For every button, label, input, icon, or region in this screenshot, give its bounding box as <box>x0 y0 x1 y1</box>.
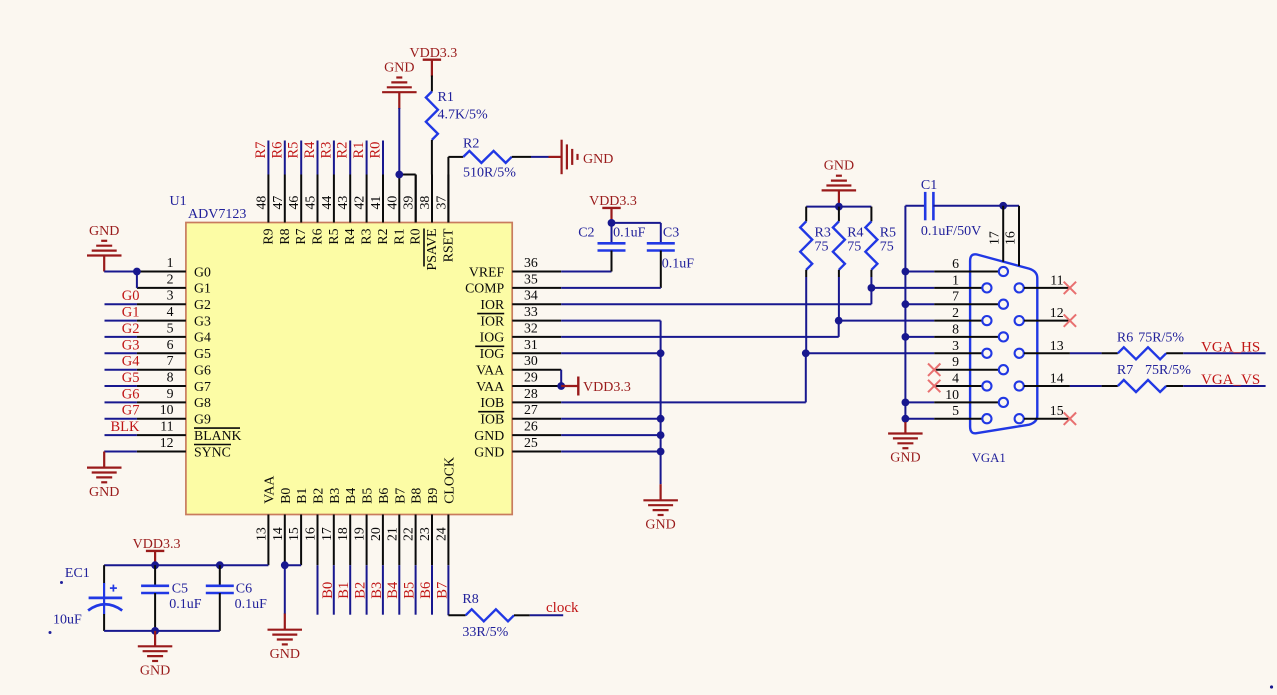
pin 41 R2 <box>382 175 384 223</box>
svg-text:G2: G2 <box>122 321 140 337</box>
wire VDD rail <box>104 564 268 566</box>
svg-text:G6: G6 <box>122 386 140 402</box>
pin 3 G2 <box>137 303 186 305</box>
svg-text:SYNC: SYNC <box>194 444 231 459</box>
wire VDD3.3 to R1 <box>431 60 433 77</box>
svg-text:48: 48 <box>253 196 268 210</box>
wire net G2 <box>105 336 137 338</box>
wire IOR to VGA <box>561 303 871 305</box>
wire VGA pin to R7 <box>1070 385 1102 387</box>
junction GND pin26 <box>657 431 665 439</box>
svg-text:G5: G5 <box>122 370 140 386</box>
svg-text:R8: R8 <box>277 228 292 244</box>
pin 16 B2 <box>317 515 319 566</box>
power VDD3.3 at C2 <box>602 207 620 209</box>
wire C2 to C3 top <box>612 222 661 224</box>
resistor R5 <box>870 207 872 222</box>
no-connect X pin11 <box>1064 282 1076 294</box>
wire net G7 <box>105 418 137 420</box>
capacitor C5 <box>154 565 156 586</box>
svg-text:GND: GND <box>645 518 675 533</box>
resistor R3 <box>805 207 807 222</box>
svg-text:VGA1: VGA1 <box>972 451 1006 465</box>
svg-text:G0: G0 <box>194 264 211 279</box>
svg-text:12: 12 <box>1050 305 1064 320</box>
svg-text:EC1: EC1 <box>65 566 90 581</box>
resistor R6 <box>1118 347 1166 359</box>
svg-text:R0: R0 <box>368 142 384 159</box>
pin 42 R3 <box>366 175 368 223</box>
wire R6 to VGA_HS <box>1166 352 1183 354</box>
wire SYNC to ground <box>104 451 137 453</box>
svg-text:4: 4 <box>952 371 959 386</box>
pin 45 R6 <box>317 175 319 223</box>
svg-text:IOR: IOR <box>480 297 505 312</box>
svg-text:28: 28 <box>524 386 538 401</box>
wire net B3 <box>366 565 368 615</box>
wire GND pin25 to bus <box>561 451 660 453</box>
wire VGA pin to R6 <box>1070 352 1102 354</box>
svg-text:GND: GND <box>384 61 414 76</box>
svg-text:C5: C5 <box>172 581 188 596</box>
svg-text:GND: GND <box>270 647 300 662</box>
svg-text:22: 22 <box>401 527 416 541</box>
svg-text:G6: G6 <box>194 363 211 378</box>
pin 29 VAA <box>512 385 561 387</box>
wire bus wires to VGA pins <box>905 271 934 273</box>
wire VGA ground bus <box>904 206 906 423</box>
junction VGA ground bus <box>902 399 910 407</box>
svg-text:2: 2 <box>952 305 959 320</box>
resistor R2 <box>463 151 511 163</box>
svg-text:VDD3.3: VDD3.3 <box>133 537 181 552</box>
ground GND above R3-R5 <box>822 176 857 191</box>
svg-text:75R/5%: 75R/5% <box>1138 330 1184 345</box>
junction pin14 <box>281 561 289 569</box>
wire termination rail <box>806 206 871 208</box>
pin 39 R0 <box>415 175 417 223</box>
pin 26 GND <box>512 434 561 436</box>
wire net B6 <box>415 565 417 615</box>
svg-text:G5: G5 <box>194 346 211 361</box>
pin 28 IOB <box>512 401 561 403</box>
ground GND below C5 <box>138 646 173 661</box>
svg-text:IOB: IOB <box>480 395 504 410</box>
wire net B1 <box>333 565 335 615</box>
wire R4 lead <box>838 270 840 277</box>
svg-text:VGA_VS: VGA_VS <box>1201 372 1260 388</box>
wire C1 to pins 17 16 <box>933 205 1019 207</box>
svg-text:9: 9 <box>167 386 174 401</box>
connector VGA1 body <box>970 254 1037 433</box>
power VDD3.3 at C5 <box>146 550 164 552</box>
svg-text:R7: R7 <box>253 142 269 159</box>
junction VGA ground bus <box>902 415 910 423</box>
svg-text:45: 45 <box>303 196 318 210</box>
svg-text:34: 34 <box>524 288 538 303</box>
wire net B4 <box>382 565 384 615</box>
svg-text:4.7K/5%: 4.7K/5% <box>438 108 489 123</box>
svg-text:GND: GND <box>824 159 854 174</box>
resistor R7 <box>1118 380 1166 392</box>
wire pin37 to R2 <box>448 156 463 158</box>
wire VREF to C2 <box>561 271 611 273</box>
junction VDD rail C6 <box>216 561 224 569</box>
svg-text:GND: GND <box>140 664 170 679</box>
svg-text:B3: B3 <box>327 488 342 504</box>
svg-text:46: 46 <box>286 196 301 210</box>
wire R8 to clock <box>514 614 530 616</box>
svg-text:14: 14 <box>270 527 285 541</box>
svg-text:21: 21 <box>384 527 399 541</box>
svg-text:C1: C1 <box>921 178 937 193</box>
svg-text:15: 15 <box>286 527 301 541</box>
junction VGA ground bus <box>902 300 910 308</box>
svg-text:3: 3 <box>952 338 959 353</box>
pin 22 B8 <box>415 515 417 566</box>
svg-text:R4: R4 <box>342 228 357 244</box>
no-connect X pin15 <box>1064 413 1076 425</box>
svg-text:G9: G9 <box>194 412 211 427</box>
svg-text:13: 13 <box>1050 338 1064 353</box>
pin 8 VGA <box>934 336 998 338</box>
svg-text:IOR: IOR <box>480 313 505 328</box>
svg-text:IOG: IOG <box>480 346 505 361</box>
svg-text:GND: GND <box>474 428 504 443</box>
svg-text:CLOCK: CLOCK <box>441 457 456 504</box>
svg-text:17: 17 <box>987 231 1002 245</box>
svg-text:24: 24 <box>433 527 448 541</box>
wire net G5 <box>105 385 137 387</box>
wire GND rail <box>104 630 220 632</box>
svg-text:37: 37 <box>433 196 448 210</box>
svg-text:VREF: VREF <box>469 264 505 279</box>
ground GND at pins 14-15 <box>268 630 303 645</box>
pin 2 G1 <box>137 287 186 289</box>
resistor R4 <box>838 207 840 222</box>
junction R5 IOR pin1 <box>868 284 876 292</box>
pin 44 R5 <box>333 175 335 223</box>
svg-text:R2: R2 <box>375 228 390 244</box>
wire net R0 <box>382 141 384 175</box>
svg-text:41: 41 <box>368 196 383 210</box>
pin 33 IOR <box>512 320 561 322</box>
junction pin1 GND <box>133 268 141 276</box>
pin 7 G6 <box>137 369 186 371</box>
svg-text:1: 1 <box>167 255 174 270</box>
svg-text:B6: B6 <box>376 488 391 504</box>
junction R4 IOG pin2 <box>835 317 843 325</box>
svg-text:0.1uF: 0.1uF <box>662 256 695 271</box>
svg-text:G2: G2 <box>194 297 211 312</box>
IC U1 ADV7123 body <box>186 223 512 515</box>
svg-text:19: 19 <box>352 527 367 541</box>
svg-text:G4: G4 <box>122 354 140 370</box>
pin 14 VGA <box>1015 381 1024 390</box>
svg-text:16: 16 <box>303 527 318 541</box>
wire IOG to VGA <box>561 336 839 338</box>
pin 15 B1 <box>300 515 302 566</box>
pin 24 CLOCK <box>447 515 449 566</box>
junction VGA ground bus <box>902 268 910 276</box>
junction VGA ground bus <box>902 333 910 341</box>
no-connect X pin12 <box>1064 314 1076 326</box>
svg-text:26: 26 <box>524 419 538 434</box>
pin 36 VREF <box>512 271 561 273</box>
pin 1 VGA <box>934 287 982 289</box>
pin 27 IOB <box>512 418 561 420</box>
pin 43 R4 <box>349 175 351 223</box>
svg-text:PSAVE: PSAVE <box>424 229 439 271</box>
junction GND rail <box>151 627 159 635</box>
svg-text:40: 40 <box>384 196 399 210</box>
pin 9 G8 <box>137 401 186 403</box>
svg-text:R7: R7 <box>1117 363 1133 378</box>
pin 3 VGA <box>934 352 982 354</box>
no-connect X pin4 <box>928 380 940 392</box>
pin 25 GND <box>512 451 561 453</box>
svg-text:38: 38 <box>417 196 432 210</box>
svg-text:R1: R1 <box>351 142 367 159</box>
svg-text:VGA_HS: VGA_HS <box>1201 340 1260 356</box>
svg-text:75R/5%: 75R/5% <box>1145 363 1191 378</box>
svg-text:R6: R6 <box>269 142 285 159</box>
svg-text:B7: B7 <box>392 488 407 504</box>
svg-text:31: 31 <box>524 337 538 352</box>
svg-text:R8: R8 <box>462 592 478 607</box>
pin 16 <box>1018 206 1020 266</box>
capacitor C3 <box>660 223 662 243</box>
wire net G6 <box>105 401 137 403</box>
svg-text:G8: G8 <box>194 395 211 410</box>
svg-text:13: 13 <box>253 527 268 541</box>
wire IOR-bar to GND bus <box>561 320 660 322</box>
wire net B2 <box>349 565 351 615</box>
svg-text:75: 75 <box>847 240 861 255</box>
wire net R6 <box>284 141 286 175</box>
pin 37 RSET <box>447 175 449 223</box>
pin 17 <box>1002 206 1004 262</box>
svg-text:3: 3 <box>167 288 174 303</box>
svg-text:0.1uF/50V: 0.1uF/50V <box>921 224 981 239</box>
svg-text:BLANK: BLANK <box>194 428 242 443</box>
svg-text:2: 2 <box>167 271 174 286</box>
svg-text:IOG: IOG <box>480 330 505 345</box>
wire net R1 <box>366 141 368 175</box>
pin 34 IOR <box>512 303 561 305</box>
ground GND below bus <box>643 500 678 515</box>
svg-text:R0: R0 <box>408 228 423 244</box>
svg-text:R6: R6 <box>310 228 325 244</box>
svg-text:VAA: VAA <box>476 379 504 394</box>
pin 20 B6 <box>382 515 384 566</box>
pin 30 VAA <box>512 369 561 371</box>
pin 4 G3 <box>137 320 186 322</box>
wire GND to pin1 <box>103 256 105 272</box>
svg-text:RSET: RSET <box>440 228 455 262</box>
pin 13 VGA <box>1015 349 1024 358</box>
pin 32 IOG <box>512 336 561 338</box>
resistor R1 <box>426 92 438 140</box>
wire pin40 to pin39 <box>399 174 415 176</box>
pin 10 VGA <box>934 401 998 403</box>
svg-text:C2: C2 <box>578 225 594 240</box>
power VDD3.3 at VAA <box>561 385 578 387</box>
wire R2 to GND <box>512 156 531 158</box>
svg-text:43: 43 <box>335 196 350 210</box>
svg-text:G7: G7 <box>122 403 140 419</box>
junction pin40 GND <box>395 171 403 179</box>
ground GND at VGA <box>904 422 906 434</box>
svg-text:39: 39 <box>401 196 416 210</box>
wire VDD3.3 to C2 <box>610 208 612 223</box>
junction R3 IOB pin3 <box>802 349 810 357</box>
svg-text:R2: R2 <box>335 142 351 159</box>
svg-text:B5: B5 <box>360 488 375 504</box>
svg-text:G4: G4 <box>194 330 211 345</box>
pin 6 G5 <box>137 352 186 354</box>
svg-text:75: 75 <box>815 240 829 255</box>
svg-text:R9: R9 <box>260 228 275 244</box>
pin 14 B0 <box>284 515 286 566</box>
svg-text:R2: R2 <box>463 136 479 151</box>
wire GND to pin40 <box>398 92 400 109</box>
svg-text:16: 16 <box>1003 231 1018 245</box>
pin 21 B7 <box>398 515 400 566</box>
junction VDD C2 <box>608 219 616 227</box>
junction C1 pin17 <box>999 202 1007 210</box>
wire net G3 <box>105 352 137 354</box>
wire net B0 <box>317 565 319 615</box>
pin 48 R9 <box>267 175 269 223</box>
pin 8 G7 <box>137 385 186 387</box>
svg-text:1: 1 <box>952 272 959 287</box>
junction VDD rail C5 <box>151 561 159 569</box>
svg-text:U1: U1 <box>170 194 187 209</box>
wire net R5 <box>300 141 302 175</box>
wire net B5 <box>398 565 400 615</box>
svg-text:COMP: COMP <box>465 281 504 296</box>
svg-text:R4: R4 <box>847 226 863 241</box>
svg-text:GND: GND <box>89 224 119 239</box>
svg-text:10uF: 10uF <box>53 613 82 628</box>
svg-text:G1: G1 <box>122 305 140 321</box>
ground GND right of R2 <box>549 156 562 158</box>
overline PSAVE <box>423 229 425 267</box>
wire COMP to C3 <box>561 287 661 289</box>
wire R7 to VGA_VS <box>1166 385 1183 387</box>
pin 7 VGA <box>934 303 998 305</box>
svg-text:GND: GND <box>89 485 119 500</box>
svg-text:GND: GND <box>583 152 613 167</box>
svg-text:R1: R1 <box>391 228 406 244</box>
svg-text:42: 42 <box>352 196 367 210</box>
wire pin1 to pin2 <box>136 272 138 288</box>
svg-text:20: 20 <box>368 527 383 541</box>
svg-text:B8: B8 <box>409 488 424 504</box>
svg-text:R3: R3 <box>359 228 374 244</box>
svg-text:GND: GND <box>890 451 920 466</box>
wire net B7 <box>431 565 433 615</box>
pin 10 G9 <box>137 418 186 420</box>
ground GND at SYNC <box>87 468 122 483</box>
svg-text:47: 47 <box>270 196 285 210</box>
svg-text:33R/5%: 33R/5% <box>462 625 508 640</box>
capacitor EC1 <box>89 597 123 600</box>
pin 31 IOG <box>512 352 561 354</box>
svg-text:B2: B2 <box>311 488 326 504</box>
svg-text:VDD3.3: VDD3.3 <box>583 380 631 395</box>
pin 5 G4 <box>137 336 186 338</box>
svg-text:7: 7 <box>952 289 959 304</box>
svg-text:C3: C3 <box>663 225 679 240</box>
svg-text:17: 17 <box>319 527 334 541</box>
svg-text:VAA: VAA <box>261 476 276 504</box>
wire bus to ground <box>659 484 661 500</box>
svg-text:C6: C6 <box>236 581 252 596</box>
wire net R4 <box>317 141 319 175</box>
svg-text:ADV7123: ADV7123 <box>188 207 246 222</box>
svg-text:VDD3.3: VDD3.3 <box>589 194 637 209</box>
svg-text:23: 23 <box>417 527 432 541</box>
wire pin15 to pin14 <box>285 564 301 566</box>
capacitor C1 <box>905 205 925 207</box>
wire IOG-bar to GND bus <box>561 352 660 354</box>
svg-text:8: 8 <box>167 370 174 385</box>
pin 38 PSAVE <box>431 175 433 223</box>
ground GND at pins 39-40 <box>382 78 417 93</box>
svg-text:G0: G0 <box>122 288 140 304</box>
svg-text:BLK: BLK <box>111 419 141 435</box>
pin 35 COMP <box>512 287 561 289</box>
wire EC1 to GND rail <box>103 614 105 631</box>
junction IOG-bar <box>657 349 665 357</box>
svg-text:36: 36 <box>524 255 538 270</box>
svg-text:12: 12 <box>160 435 174 450</box>
pin 11 BLANK <box>137 434 186 436</box>
pin 23 B9 <box>431 515 433 566</box>
svg-text:44: 44 <box>319 196 334 210</box>
pin 40 R1 <box>398 175 400 223</box>
wire to VGA pin1 <box>871 287 934 289</box>
svg-text:0.1uF: 0.1uF <box>613 225 646 240</box>
svg-text:IOB: IOB <box>480 412 504 427</box>
svg-text:VDD3.3: VDD3.3 <box>409 46 457 61</box>
wire R3 lead <box>805 270 807 277</box>
pin 12 SYNC <box>137 451 186 453</box>
svg-text:27: 27 <box>524 402 538 417</box>
svg-text:B0: B0 <box>278 488 293 504</box>
svg-text:G3: G3 <box>194 313 211 328</box>
pin 15 VGA <box>1015 414 1024 423</box>
svg-text:R4: R4 <box>302 141 318 159</box>
wire net G4 <box>105 369 137 371</box>
wire net R2 <box>349 141 351 175</box>
svg-text:B9: B9 <box>425 488 440 504</box>
power VDD3.3 at R1 <box>423 59 441 61</box>
pin 17 B3 <box>333 515 335 566</box>
capacitor C6 <box>219 565 221 586</box>
wire net R7 <box>267 141 269 175</box>
pin 2 VGA <box>934 320 982 322</box>
svg-text:14: 14 <box>1050 371 1064 386</box>
svg-text:32: 32 <box>524 320 538 335</box>
wire GND pin26 to bus <box>561 434 660 436</box>
svg-text:G3: G3 <box>122 337 140 353</box>
pin 13 VAA <box>267 515 269 566</box>
pin 4 VGA <box>934 385 982 387</box>
svg-text:VAA: VAA <box>476 363 504 378</box>
